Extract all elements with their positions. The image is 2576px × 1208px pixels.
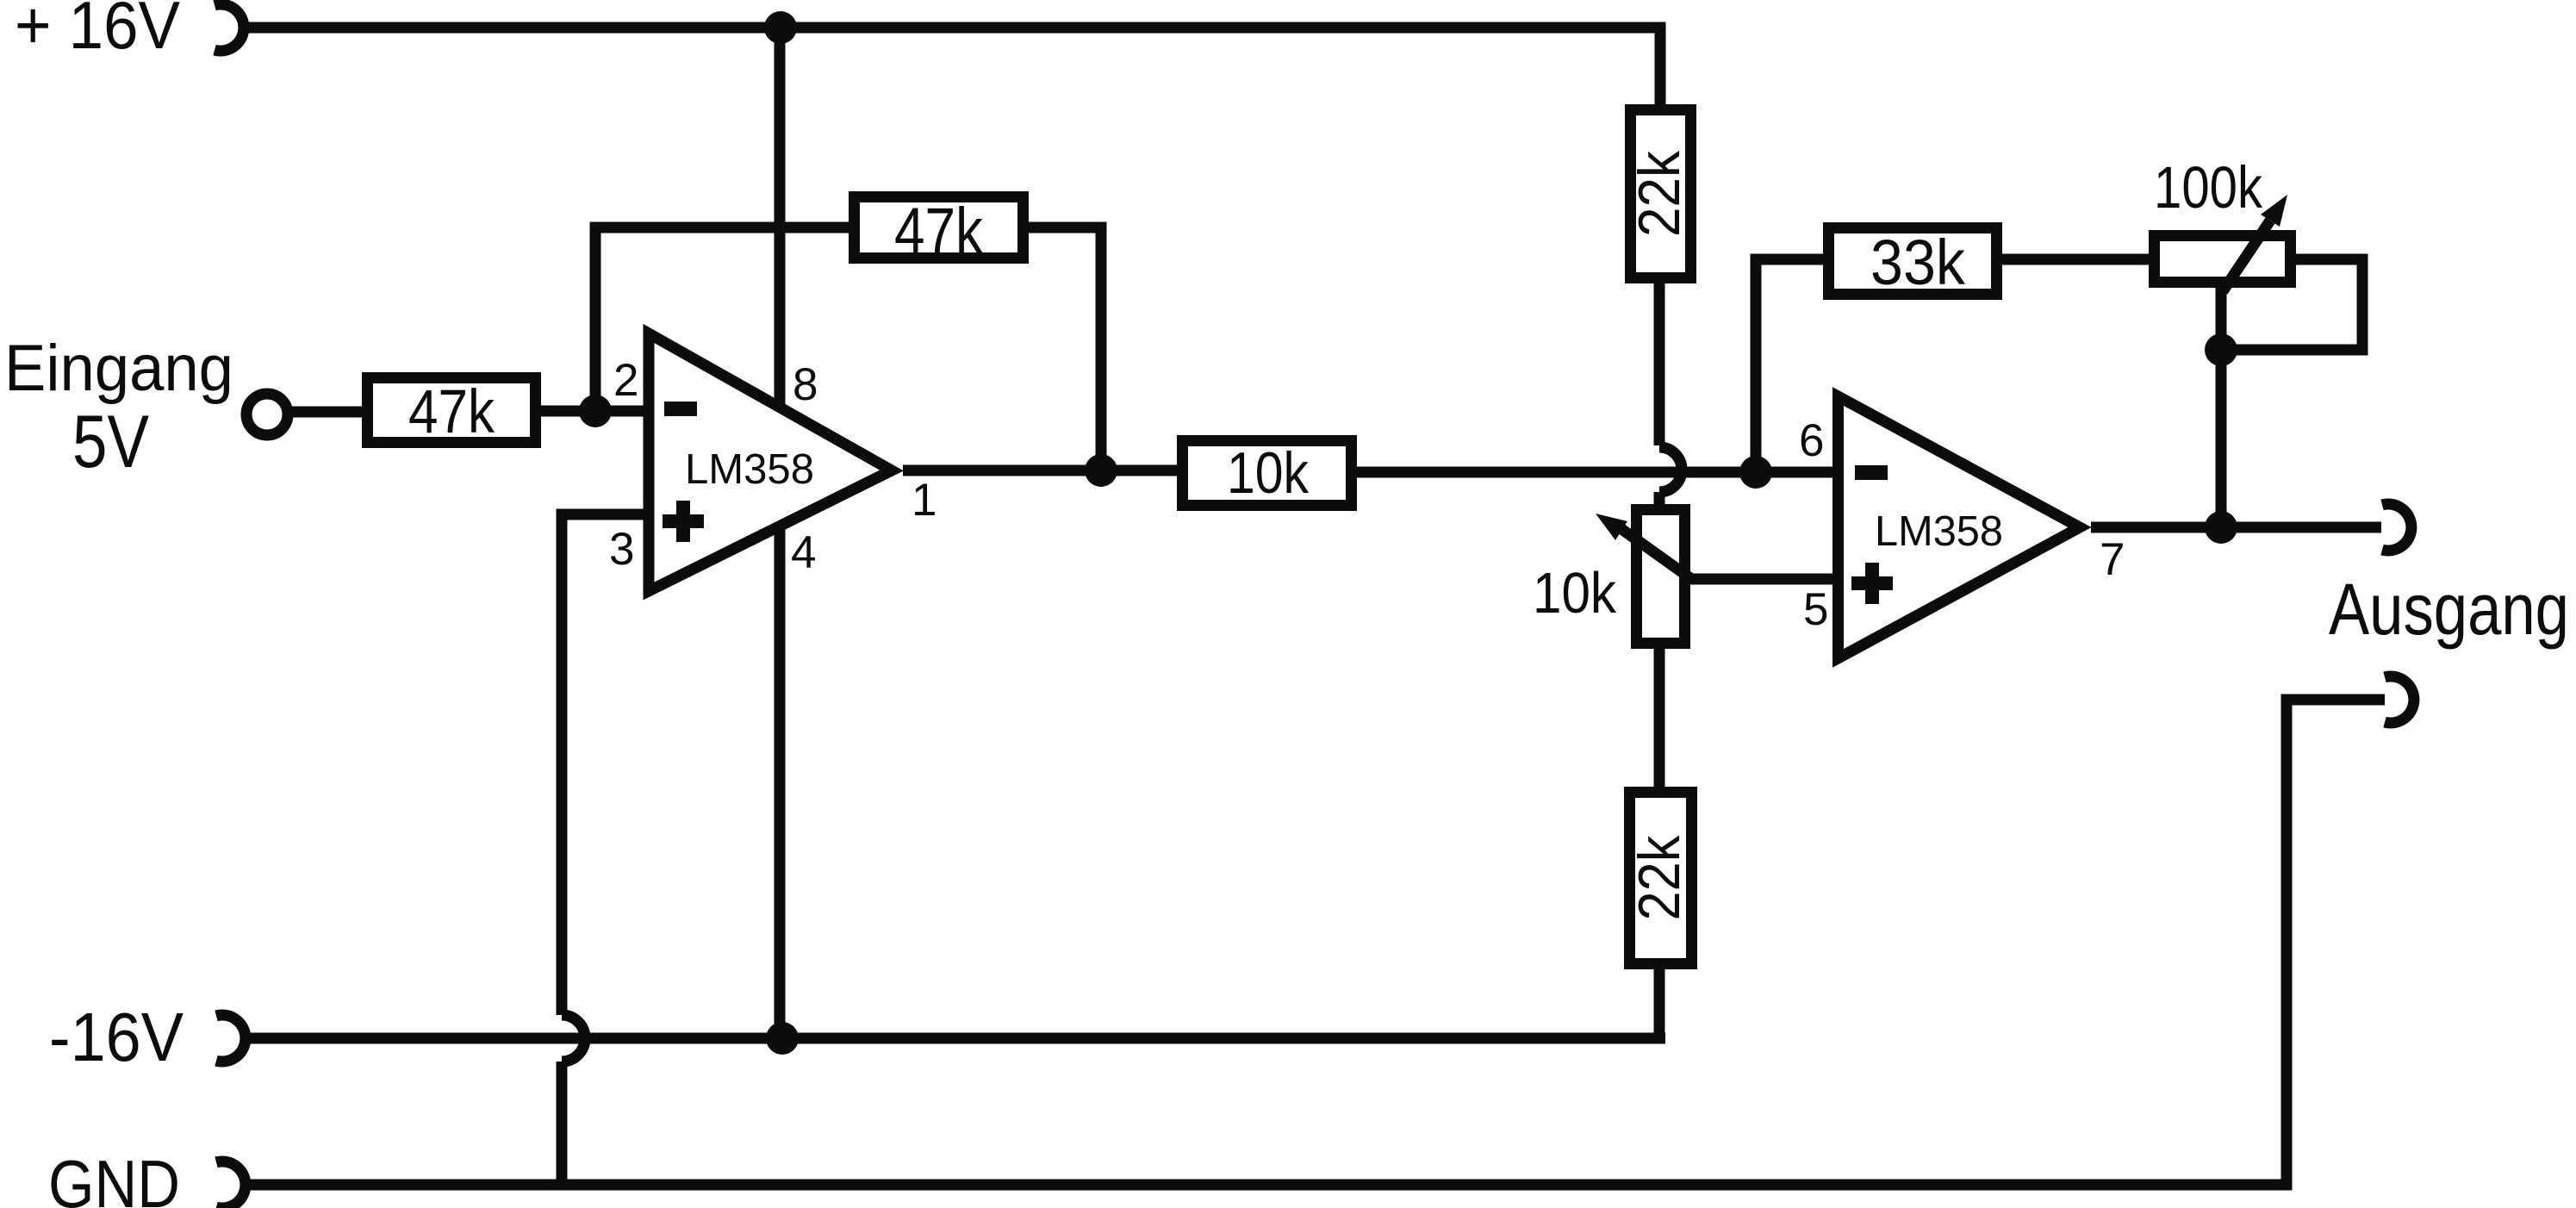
wire 100k pot wiper down to output — [2216, 288, 2227, 527]
junction output1 / feedback — [1085, 454, 1117, 487]
svg-text:100k: 100k — [2154, 154, 2262, 221]
wire pin 8 supply drop — [775, 28, 786, 419]
resistor R7 33k — [1829, 228, 1997, 295]
wire pin 3 down — [562, 514, 644, 1015]
terminal Ausgang output — [2382, 504, 2411, 551]
op-amp U2 LM358 — [1839, 396, 2081, 658]
svg-text:5V: 5V — [72, 401, 149, 483]
svg-text:Eingang: Eingang — [4, 332, 233, 405]
wire GND rail to Ausgang return — [246, 700, 2385, 1185]
wire 33k R7 to 100k pot — [2002, 254, 2149, 265]
svg-text:2: 2 — [613, 355, 638, 406]
wire node A to feedback 47k R2 — [595, 227, 849, 411]
plus sign U1 — [663, 501, 704, 542]
arrowhead pot R8 — [2261, 195, 2287, 227]
wire pot R5 bottom to 22k R6 — [1654, 649, 1665, 787]
wire pin 4 to -16V rail — [775, 517, 786, 1038]
wire 100k pot right terminal loop — [2221, 259, 2362, 350]
wire feedback 47k R2 to output node — [1029, 227, 1101, 470]
resistor R2 47k feedback — [855, 197, 1024, 258]
resistor R1 47k input — [368, 378, 536, 443]
svg-text:+ 16V: + 16V — [15, 0, 180, 63]
op-amp U1 LM358 — [649, 333, 892, 591]
svg-text:10k: 10k — [1227, 440, 1310, 506]
potentiometer R5 10k body — [1637, 510, 1685, 644]
wire +16V rail to 22k corner — [244, 28, 1660, 104]
svg-text:47k: 47k — [894, 195, 984, 268]
svg-text:3: 3 — [609, 524, 634, 575]
svg-text:GND: GND — [48, 1146, 180, 1208]
wire node B up to 33k R7 — [1756, 259, 1823, 472]
wire hop over node wire (vertical jump) — [1659, 447, 1682, 504]
svg-text:1: 1 — [912, 475, 936, 526]
svg-text:4: 4 — [791, 527, 816, 578]
resistor R3 22k upper — [1631, 110, 1691, 278]
minus sign U1 — [664, 402, 697, 416]
minus sign U2 — [1855, 465, 1888, 480]
svg-text:33k: 33k — [1870, 227, 1966, 298]
node A input junction — [579, 395, 612, 427]
wire pin 1 output to 10k R4 — [903, 465, 1177, 476]
wire pot R8 wiper arm — [2223, 221, 2270, 291]
wire 22k R6 to -16V rail — [1654, 969, 1665, 1043]
wire pot R5 wiper arm — [1618, 526, 1690, 578]
svg-text:22k: 22k — [1627, 150, 1692, 237]
wire hop over -16V rail — [562, 1015, 585, 1190]
svg-text:5: 5 — [1803, 584, 1828, 635]
terminal Eingang circle — [246, 394, 288, 435]
junction 100k loop — [2205, 333, 2237, 366]
wire pot R5 wiper to pin 5 — [1690, 574, 1838, 585]
svg-text:47k: 47k — [408, 378, 495, 446]
node B junction pin 6 — [1739, 456, 1772, 489]
potentiometer R8 100k body — [2155, 236, 2291, 283]
junction output2 / 100k — [2205, 511, 2237, 544]
svg-text:LM358: LM358 — [1875, 508, 2003, 555]
svg-text:7: 7 — [2100, 534, 2125, 585]
terminal +16V — [215, 4, 244, 51]
wire pin 7 output to Ausgang — [2091, 522, 2381, 533]
terminal -16V — [216, 1015, 246, 1062]
wire 22k R3 to hop — [1654, 283, 1665, 445]
svg-text:-16V: -16V — [49, 999, 184, 1075]
terminal Ausgang return — [2385, 676, 2414, 723]
wire input terminal to 47k R1 — [290, 407, 362, 418]
wire 10k R4 to pin 6 — [1357, 467, 1838, 478]
wire -16V rail — [246, 1033, 1665, 1044]
plus sign U2 — [1851, 563, 1893, 604]
svg-text:LM358: LM358 — [685, 446, 814, 493]
svg-text:22k: 22k — [1627, 835, 1692, 921]
svg-text:10k: 10k — [1533, 561, 1616, 626]
svg-text:6: 6 — [1799, 415, 1824, 466]
junction +16V / pin8 — [764, 11, 797, 44]
terminal GND — [216, 1161, 246, 1208]
junction -16V / pin4 — [766, 1022, 799, 1055]
resistor R6 22k lower — [1630, 793, 1692, 964]
resistor R4 10k — [1183, 441, 1352, 506]
arrowhead pot R5 — [1596, 514, 1627, 540]
svg-text:Ausgang: Ausgang — [2329, 569, 2569, 650]
svg-text:8: 8 — [793, 359, 818, 410]
wire 47k R1 to pin 2 — [541, 406, 644, 417]
